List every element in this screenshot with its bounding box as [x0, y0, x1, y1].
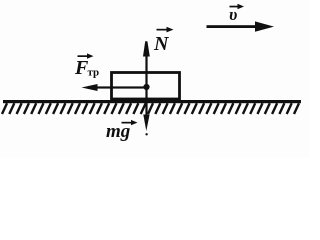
svg-text:тр: тр: [88, 67, 100, 79]
block (body on surface): [112, 73, 180, 100]
force N arrow (normal force, up): [143, 41, 150, 88]
label v vector: [229, 4, 244, 24]
svg-text:mg: mg: [106, 121, 130, 142]
node: center of mass dot: [143, 84, 149, 90]
label F_tr vector: [74, 53, 99, 79]
velocity v arrow (top right): [207, 21, 275, 31]
force mg arrow (weight, down): [143, 88, 149, 136]
ground hatching: [2, 103, 299, 114]
svg-text:υ: υ: [229, 5, 237, 24]
label N vector: [153, 27, 174, 55]
ground surface line: [3, 100, 301, 103]
label mg vector: [106, 120, 138, 142]
force F_tr arrow (friction, left): [82, 84, 147, 91]
svg-text:N: N: [153, 33, 170, 55]
